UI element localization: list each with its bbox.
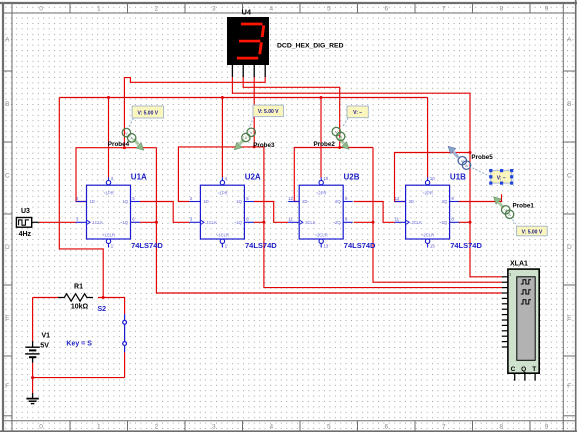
wire: net ~Q4 corner down to ~Q4 output [469, 153, 471, 223]
wire: ~Q4 output stub [459, 221, 470, 223]
svg-text:7: 7 [442, 6, 446, 13]
wire: switch S2 bottom to rail [124, 352, 126, 377]
svg-text:Probe5: Probe5 [471, 154, 493, 161]
svg-text:Probe3: Probe3 [253, 142, 275, 149]
svg-text:U1B: U1B [450, 173, 466, 182]
svg-text:6: 6 [384, 424, 388, 431]
svg-text:3: 3 [212, 424, 216, 431]
svg-text:6: 6 [384, 6, 388, 13]
svg-text:~2PR: ~2PR [422, 191, 433, 196]
svg-text:~1PR: ~1PR [217, 191, 228, 196]
svg-text:1CLK: 1CLK [93, 220, 104, 225]
probe Probe3 [234, 128, 275, 150]
svg-text:V: V [125, 130, 128, 135]
junction: ~Q4 output node [469, 221, 472, 224]
svg-text:~2CLR: ~2CLR [421, 233, 434, 238]
svg-text:C: C [567, 173, 572, 180]
wire: bottom rail to V1 branch [33, 377, 125, 379]
clock source U3 4Hz [16, 208, 39, 238]
svg-text:A: A [508, 212, 511, 217]
seven-segment display U4 (DCD_HEX_DIG_RED) [227, 7, 344, 77]
svg-text:2CLK: 2CLK [305, 220, 316, 225]
svg-text:12: 12 [395, 196, 400, 201]
probe Probe1 [494, 197, 535, 219]
wire: net ~Q4 horizontal to D4 input [395, 153, 471, 202]
svg-text:74LS74D: 74LS74D [131, 241, 163, 250]
svg-text:0: 0 [39, 6, 43, 13]
junction: display pin1 on net ~Q1 [123, 146, 126, 149]
svg-text:U4: U4 [242, 7, 252, 16]
wire: Q4 output to Probe1 hook [459, 194, 502, 201]
svg-text:~1PR: ~1PR [103, 191, 114, 196]
svg-text:1: 1 [97, 6, 101, 13]
svg-text:10: 10 [430, 176, 435, 181]
svg-text:A: A [245, 135, 248, 140]
svg-text:3: 3 [212, 6, 216, 13]
svg-text:U3: U3 [21, 208, 30, 215]
probe Probe2 [314, 127, 350, 149]
svg-text:1Q: 1Q [236, 199, 242, 204]
ground symbol [26, 393, 38, 404]
svg-text:4: 4 [269, 6, 273, 13]
svg-text:~2CLR: ~2CLR [315, 233, 328, 238]
svg-text:1: 1 [97, 424, 101, 431]
svg-text:C: C [511, 366, 516, 373]
svg-text:~1Q: ~1Q [120, 220, 129, 225]
svg-text:XLA1: XLA1 [510, 261, 528, 268]
junction: ~PR1 on bus [107, 96, 110, 99]
svg-text:E: E [5, 315, 10, 322]
wire: Q2 output to CLK3 [254, 202, 289, 223]
svg-text:5: 5 [327, 6, 331, 13]
wire: ~Q2 output stub [254, 221, 264, 223]
wire: net ~Q4 down to logic analyzer channel 1 [470, 222, 502, 276]
svg-text:9: 9 [545, 424, 549, 431]
wire: ~PR pin U1A [108, 98, 110, 178]
flip-flop U1A (74LS74D) [76, 173, 164, 250]
voltage readout of Probe4 (V: 5.00 V) [128, 106, 164, 129]
svg-text:~2Q: ~2Q [333, 220, 342, 225]
wire: net ~Q2 down to logic analyzer channel 3 [264, 222, 502, 287]
wire: net ~Q1 corner down to ~Q1 output [155, 148, 157, 223]
svg-text:V1: V1 [42, 332, 51, 339]
svg-text:V: 5.00 V: V: 5.00 V [258, 109, 279, 115]
switch S2 (Key = S) [66, 306, 126, 352]
svg-text:E: E [567, 315, 572, 322]
svg-text:A: A [5, 37, 10, 44]
svg-text:A: A [339, 134, 342, 139]
svg-text:DCD_HEX_DIG_RED: DCD_HEX_DIG_RED [277, 43, 344, 50]
svg-text:9: 9 [545, 6, 549, 13]
svg-text:2: 2 [154, 424, 158, 431]
junction: ~Q2 output node [262, 221, 265, 224]
junction: ~PR3 on bus [320, 96, 323, 99]
wire: net ~Q1 horizontal to D1 input [76, 148, 156, 202]
svg-text:A: A [130, 136, 133, 141]
wire: R1 right to switch S2 top [98, 298, 125, 314]
svg-text:2D: 2D [302, 199, 307, 204]
wire: net ~Q1 down to logic analyzer channel 4 [156, 222, 502, 293]
svg-text:1D: 1D [203, 199, 208, 204]
svg-text:74LS74D: 74LS74D [344, 241, 376, 250]
probe Probe5 (selected, blue) [448, 146, 493, 169]
pin 1 of U4 [231, 65, 233, 77]
svg-text:13: 13 [324, 244, 329, 249]
junction: ~PR2 on bus [221, 96, 224, 99]
svg-text:11: 11 [395, 217, 400, 222]
wire: ~PR bus down-left to R1/S2 junction [59, 98, 103, 298]
wire: display pin4 to net ~Q1 (jog) [124, 77, 265, 148]
wire: Q1 output to CLK2 [140, 202, 189, 223]
wire: display pin1 route to net ~Q4 [232, 77, 470, 153]
svg-text:V: 5.00 V: V: 5.00 V [522, 229, 543, 235]
junction: display pin2 on net ~Q3 [338, 146, 341, 149]
svg-text:5V: 5V [40, 342, 49, 349]
svg-text:12: 12 [288, 196, 293, 201]
wire: display pin2 route to net ~Q3 [243, 77, 340, 148]
svg-text:C: C [5, 173, 10, 180]
svg-text:10: 10 [324, 176, 329, 181]
svg-text:V: –: V: – [497, 175, 506, 181]
wire: net ~Q3 corner down to ~Q3 output [372, 148, 374, 223]
junction: ~Q3 output node [372, 221, 375, 224]
svg-text:4: 4 [269, 424, 273, 431]
flip-flop U2A (74LS74D) [189, 173, 277, 250]
svg-text:A: A [465, 163, 468, 168]
junction: V1 bottom rail node [31, 376, 34, 379]
svg-text:R1: R1 [74, 283, 83, 290]
svg-text:S2: S2 [98, 306, 107, 313]
battery V1 5V [25, 332, 50, 363]
svg-text:74LS74D: 74LS74D [450, 241, 482, 250]
svg-text:V: V [504, 208, 507, 213]
svg-text:~2Q: ~2Q [439, 220, 448, 225]
svg-text:Probe4: Probe4 [108, 141, 130, 148]
wire: ~Q1 output stub [140, 221, 156, 223]
wire: U3 clock output to CLK1 [39, 221, 76, 223]
flip-flop U1B (74LS74D) [395, 173, 483, 250]
logic analyzer XLA1 [502, 261, 539, 381]
svg-text:U2A: U2A [245, 173, 261, 182]
svg-text:D: D [5, 244, 10, 251]
svg-text:0: 0 [39, 424, 43, 431]
wire: V1 top branch [32, 298, 34, 342]
wire: V1 bottom to ground [32, 363, 34, 394]
svg-text:5: 5 [327, 424, 331, 431]
svg-text:~1CLR: ~1CLR [216, 233, 229, 238]
wire: net ~Q2 horizontal to D2 input [178, 147, 264, 202]
svg-text:4Hz: 4Hz [19, 231, 32, 238]
wire: ~PR bus (net from R1/S2) [59, 97, 427, 99]
svg-text:D: D [567, 244, 572, 251]
wire: Q3 output to CLK4 [354, 202, 395, 223]
svg-text:~2PR: ~2PR [316, 191, 327, 196]
svg-text:10kΩ: 10kΩ [71, 303, 89, 310]
svg-text:Probe2: Probe2 [314, 141, 336, 148]
svg-text:8: 8 [499, 6, 503, 13]
svg-text:13: 13 [430, 244, 435, 249]
svg-text:8: 8 [499, 424, 503, 431]
pin 4 of U4 [264, 65, 266, 77]
svg-text:2D: 2D [409, 199, 414, 204]
flip-flop U2B (74LS74D) [288, 173, 376, 250]
svg-text:2Q: 2Q [442, 199, 448, 204]
junction: display pin3 on net ~Q2 [253, 145, 256, 148]
svg-text:~1Q: ~1Q [234, 220, 243, 225]
svg-text:Probe1: Probe1 [513, 203, 535, 210]
svg-text:1Q: 1Q [122, 199, 128, 204]
svg-text:V: V [461, 158, 464, 163]
svg-text:F: F [5, 383, 9, 390]
svg-text:U1A: U1A [131, 173, 147, 182]
pin 3 of U4 [253, 65, 255, 77]
svg-text:~1CLR: ~1CLR [102, 233, 115, 238]
svg-text:2CLK: 2CLK [412, 220, 423, 225]
wire: ~PR pin U2A [221, 98, 223, 178]
junction: ~Q1 output node [155, 221, 158, 224]
svg-text:V: 5.00 V: V: 5.00 V [138, 110, 159, 116]
wire: net ~Q3 down to logic analyzer channel 2 [373, 222, 502, 282]
svg-text:A: A [567, 37, 572, 44]
svg-text:V: V [335, 129, 338, 134]
svg-text:B: B [5, 101, 9, 108]
svg-text:F: F [567, 383, 571, 390]
wire: ~Q3 output stub [354, 221, 373, 223]
svg-text:1CLK: 1CLK [206, 220, 217, 225]
svg-text:V: –: V: – [353, 110, 362, 116]
svg-text:V: V [250, 130, 253, 135]
wire: display pin3 drop to net ~Q2 [253, 77, 255, 147]
svg-text:T: T [532, 366, 536, 373]
wire: ~PR pin U2B [320, 98, 322, 178]
svg-text:74LS74D: 74LS74D [245, 241, 277, 250]
junction: R1/S2 node [102, 296, 105, 299]
svg-text:11: 11 [288, 217, 293, 222]
svg-text:2: 2 [154, 6, 158, 13]
pin 2 of U4 [242, 65, 244, 77]
resistor R1 10kOhm [58, 283, 93, 310]
voltage readout of Probe3 (V: 5.00 V) [250, 105, 284, 127]
wire: R1 left lead wire [33, 297, 58, 299]
svg-text:B: B [567, 101, 571, 108]
voltage readout of Probe1 (V: 5.00 V) [513, 220, 548, 236]
wire: net ~Q3 horizontal to D3 input [294, 148, 373, 202]
svg-text:2Q: 2Q [335, 199, 341, 204]
junction: display pin4 on net ~Q4 [469, 151, 472, 154]
svg-text:U2B: U2B [344, 173, 360, 182]
voltage readout of Probe5 (V: blank, selected) [471, 167, 514, 185]
svg-text:Q: Q [521, 366, 526, 373]
svg-text:7: 7 [442, 424, 446, 431]
wire: ~PR pin U1B [427, 98, 429, 178]
svg-text:Key = S: Key = S [66, 340, 92, 347]
probe Probe4 [108, 128, 144, 150]
svg-text:1D: 1D [90, 199, 95, 204]
voltage readout of Probe2 (V: blank) [343, 106, 369, 127]
wire: net ~Q2 corner down to ~Q2 output [263, 147, 265, 222]
